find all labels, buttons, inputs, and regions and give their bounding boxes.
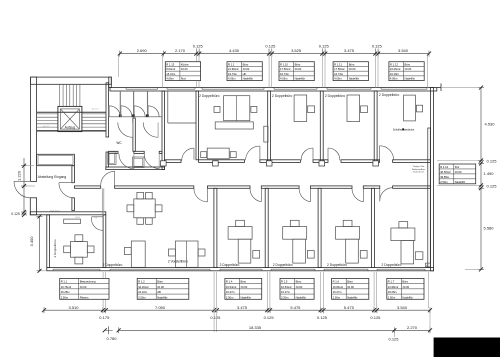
svg-text:16.73m: 16.73m bbox=[334, 72, 344, 76]
svg-text:±0.00: ±0.00 bbox=[241, 285, 248, 289]
svg-text:0.125: 0.125 bbox=[210, 315, 221, 320]
svg-text:±0.00: ±0.00 bbox=[181, 67, 188, 71]
svg-text:R 1.7: R 1.7 bbox=[388, 280, 395, 284]
svg-text:4.430: 4.430 bbox=[229, 48, 240, 53]
svg-text:2.50m: 2.50m bbox=[440, 180, 448, 184]
svg-text:R 1.10: R 1.10 bbox=[280, 62, 288, 66]
svg-text:16.27m: 16.27m bbox=[226, 290, 236, 294]
svg-text:Nadelfilz: Nadelfilz bbox=[243, 77, 254, 81]
svg-text:0.125: 0.125 bbox=[11, 212, 20, 216]
svg-text:Bodenaufbau: Bodenaufbau bbox=[412, 169, 426, 171]
svg-text:Nadelfilz: Nadelfilz bbox=[241, 295, 252, 299]
svg-text:Nadelfilz: Nadelfilz bbox=[402, 295, 413, 299]
svg-text:Fliesen: Fliesen bbox=[80, 295, 89, 299]
svg-text:R 1.2: R 1.2 bbox=[138, 280, 145, 284]
svg-text:Aufzug: Aufzug bbox=[65, 126, 76, 130]
svg-text:±0.00: ±0.00 bbox=[243, 67, 250, 71]
svg-text:0.125: 0.125 bbox=[193, 44, 204, 49]
svg-text:Fpd: Fpd bbox=[181, 77, 186, 81]
svg-text:Büro: Büro bbox=[295, 62, 301, 66]
svg-text:30.56m2: 30.56m2 bbox=[440, 170, 451, 174]
svg-text:16.27m: 16.27m bbox=[333, 290, 343, 294]
svg-text:16.19m: 16.19m bbox=[390, 72, 400, 76]
svg-text:8.04m2: 8.04m2 bbox=[166, 67, 175, 71]
svg-text:2.50m: 2.50m bbox=[61, 295, 69, 299]
svg-text:3.525: 3.525 bbox=[291, 48, 302, 53]
svg-text:2 Doppelbüro: 2 Doppelbüro bbox=[220, 263, 240, 267]
svg-text:2.50m: 2.50m bbox=[226, 295, 234, 299]
svg-text:Küche: Küche bbox=[181, 62, 189, 66]
svg-text:0.125: 0.125 bbox=[265, 44, 276, 49]
svg-text:R 1.1: R 1.1 bbox=[61, 280, 68, 284]
svg-text:±0.00: ±0.00 bbox=[80, 285, 87, 289]
svg-text:5.475: 5.475 bbox=[290, 305, 301, 310]
svg-text:0.125: 0.125 bbox=[372, 44, 383, 49]
svg-text:4.06m: 4.06m bbox=[228, 77, 236, 81]
svg-text:Büro: Büro bbox=[402, 280, 408, 284]
svg-text:0.175: 0.175 bbox=[99, 315, 110, 320]
svg-text:16x17,5: 16x17,5 bbox=[91, 109, 99, 111]
svg-text:Nadelfilz: Nadelfilz bbox=[295, 77, 306, 81]
svg-text:Abstellung Eingang: Abstellung Eingang bbox=[38, 175, 67, 179]
svg-text:16.54m2: 16.54m2 bbox=[281, 285, 292, 289]
svg-text:4.530: 4.530 bbox=[485, 122, 496, 127]
svg-text:Büro: Büro bbox=[347, 280, 353, 284]
svg-text:2 Doppelbüro: 2 Doppelbüro bbox=[325, 94, 345, 98]
svg-text:Mob.Wand: Mob.Wand bbox=[50, 210, 60, 212]
svg-text:Besprechung: Besprechung bbox=[80, 280, 96, 284]
svg-text:34.20m2: 34.20m2 bbox=[138, 285, 149, 289]
svg-text:2.50m: 2.50m bbox=[388, 295, 396, 299]
svg-text:2.690: 2.690 bbox=[137, 48, 148, 53]
svg-text:3.400: 3.400 bbox=[29, 236, 34, 247]
svg-text:16.06m2: 16.06m2 bbox=[390, 67, 401, 71]
svg-text:4.06m: 4.06m bbox=[280, 77, 288, 81]
svg-text:18.25m: 18.25m bbox=[388, 290, 398, 294]
svg-text:3.475: 3.475 bbox=[237, 305, 248, 310]
svg-text:±0.00: ±0.00 bbox=[157, 285, 164, 289]
svg-text:0.125: 0.125 bbox=[370, 315, 381, 320]
svg-text:3.540: 3.540 bbox=[398, 48, 409, 53]
svg-text:0.125: 0.125 bbox=[317, 315, 328, 320]
svg-text:5.580: 5.580 bbox=[484, 226, 495, 231]
svg-text:Büro: Büro bbox=[296, 280, 302, 284]
svg-text:2 Doppelbüro: 2 Doppelbüro bbox=[379, 93, 399, 97]
svg-text:13.76m2: 13.76m2 bbox=[61, 285, 72, 289]
svg-text:R 1.14: R 1.14 bbox=[440, 165, 448, 169]
svg-text:2 Doppelbüro: 2 Doppelbüro bbox=[53, 239, 57, 257]
svg-text:2 Doppelbüro: 2 Doppelbüro bbox=[272, 94, 292, 98]
svg-text:16.27m: 16.27m bbox=[281, 290, 291, 294]
svg-text:5.475: 5.475 bbox=[344, 305, 355, 310]
svg-text:Treppe: Flur: Treppe: Flur bbox=[413, 165, 425, 168]
svg-text:0.125: 0.125 bbox=[487, 183, 498, 188]
svg-text:2 Doppelbüro: 2 Doppelbüro bbox=[103, 263, 123, 267]
svg-text:16.54m2: 16.54m2 bbox=[226, 285, 237, 289]
svg-text:0.125: 0.125 bbox=[264, 315, 275, 320]
svg-text:AB: AB bbox=[157, 290, 161, 294]
svg-text:4.06m: 4.06m bbox=[334, 77, 342, 81]
svg-text:1.220: 1.220 bbox=[17, 170, 22, 181]
svg-text:2 Doppelbüro: 2 Doppelbüro bbox=[382, 263, 402, 267]
svg-text:0.125: 0.125 bbox=[388, 336, 399, 341]
svg-text:1.490: 1.490 bbox=[484, 171, 495, 176]
svg-text:Nadelfilz: Nadelfilz bbox=[296, 295, 307, 299]
svg-text:15.41m: 15.41m bbox=[166, 72, 176, 76]
svg-text:24.22m: 24.22m bbox=[138, 290, 148, 294]
svg-text:R 1.6: R 1.6 bbox=[333, 280, 340, 284]
svg-text:16.73m: 16.73m bbox=[280, 72, 290, 76]
svg-text:16.84m2: 16.84m2 bbox=[333, 285, 344, 289]
svg-text:Nadelfilz: Nadelfilz bbox=[349, 77, 360, 81]
svg-text:±0.00: ±0.00 bbox=[349, 67, 356, 71]
svg-text:2.50m: 2.50m bbox=[333, 295, 341, 299]
svg-text:3.510: 3.510 bbox=[68, 305, 79, 310]
svg-text:3.540: 3.540 bbox=[397, 305, 408, 310]
svg-text:2.170: 2.170 bbox=[175, 48, 186, 53]
svg-text:2 Doppelbüro: 2 Doppelbüro bbox=[199, 94, 219, 98]
svg-text:±0.00: ±0.00 bbox=[455, 170, 462, 174]
svg-text:7.050: 7.050 bbox=[155, 305, 166, 310]
svg-text:2 Doppelbüro: 2 Doppelbüro bbox=[273, 263, 293, 267]
svg-text:±0.00: ±0.00 bbox=[295, 67, 302, 71]
svg-text:2 Doppelbüro: 2 Doppelbüro bbox=[327, 263, 347, 267]
svg-text:16.28m: 16.28m bbox=[61, 290, 71, 294]
svg-text:19.73m: 19.73m bbox=[228, 72, 238, 76]
svg-text:4.06m: 4.06m bbox=[390, 77, 398, 81]
svg-text:Nadelfilz: Nadelfilz bbox=[157, 295, 168, 299]
svg-text:Büro: Büro bbox=[243, 62, 249, 66]
svg-text:Nadelfilz: Nadelfilz bbox=[405, 77, 416, 81]
svg-text:21.96m2: 21.96m2 bbox=[228, 67, 239, 71]
svg-text:39.85m: 39.85m bbox=[440, 175, 450, 179]
svg-text:R 1.4: R 1.4 bbox=[226, 280, 233, 284]
svg-text:17.56m2: 17.56m2 bbox=[280, 67, 291, 71]
svg-text:R 1.5: R 1.5 bbox=[281, 280, 288, 284]
svg-text:3.475: 3.475 bbox=[344, 48, 355, 53]
svg-text:Nadelfilz: Nadelfilz bbox=[455, 180, 466, 184]
svg-text:2.270: 2.270 bbox=[407, 325, 418, 330]
svg-text:KGB: KGB bbox=[75, 217, 80, 219]
svg-text:2 Vorstellbüro: 2 Vorstellbüro bbox=[168, 259, 188, 263]
svg-text:Nadelfilz: Nadelfilz bbox=[347, 295, 358, 299]
svg-text:HK: HK bbox=[243, 72, 247, 76]
svg-text:4.06m: 4.06m bbox=[166, 77, 174, 81]
svg-text:Büro: Büro bbox=[241, 280, 247, 284]
svg-text:±0.00: ±0.00 bbox=[347, 285, 354, 289]
svg-text:Büro: Büro bbox=[349, 62, 355, 66]
svg-text:R 1.11: R 1.11 bbox=[334, 62, 342, 66]
svg-text:R 1.1: R 1.1 bbox=[228, 62, 235, 66]
svg-text:0.125: 0.125 bbox=[487, 158, 498, 163]
svg-text:R 1.12: R 1.12 bbox=[390, 62, 398, 66]
svg-text:18.335: 18.335 bbox=[249, 325, 262, 330]
svg-text:Büro: Büro bbox=[157, 280, 163, 284]
svg-text:±0.00: ±0.00 bbox=[405, 67, 412, 71]
svg-text:±0.00: ±0.00 bbox=[296, 285, 303, 289]
svg-text:14.96m2: 14.96m2 bbox=[388, 285, 399, 289]
svg-text:WC: WC bbox=[116, 141, 122, 145]
svg-text:Büro: Büro bbox=[405, 62, 411, 66]
svg-text:0.780: 0.780 bbox=[106, 336, 117, 341]
svg-text:16x17,5: 16x17,5 bbox=[43, 126, 50, 128]
svg-text:±0.00: ±0.00 bbox=[402, 285, 409, 289]
svg-text:Flur: Flur bbox=[455, 165, 460, 169]
svg-text:Estrich tief: Estrich tief bbox=[413, 171, 424, 174]
svg-text:0.125: 0.125 bbox=[319, 44, 330, 49]
svg-text:R 1.13: R 1.13 bbox=[166, 62, 174, 66]
svg-text:2.50m: 2.50m bbox=[281, 295, 289, 299]
svg-text:17.56m2: 17.56m2 bbox=[334, 67, 345, 71]
svg-text:2.50m: 2.50m bbox=[138, 295, 146, 299]
